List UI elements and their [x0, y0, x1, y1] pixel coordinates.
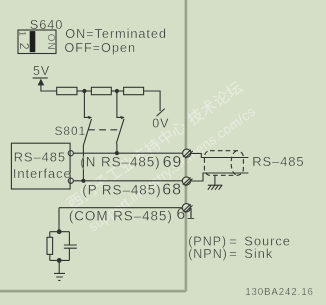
wire terminal 69 to cable [191, 153, 249, 157]
resistor R1 [57, 87, 77, 94]
shield earth bar [208, 184, 223, 186]
wire to earth [58, 260, 60, 273]
capacitor C (right branch) [68, 232, 70, 261]
drive enclosure boundary line (bottom grey) [0, 290, 186, 293]
RC top node dot [57, 229, 62, 234]
wire 5V down and to R1 [41, 85, 57, 91]
svg-text:ON: ON [45, 34, 56, 51]
resistor R2 [91, 87, 111, 94]
wire R2-R3 [111, 90, 123, 92]
RC loop top [50, 231, 70, 233]
switch S801 pole 1 arrowhead [88, 116, 92, 119]
svg-text:ON=Terminated: ON=Terminated [65, 26, 167, 41]
shield earth hatches [208, 185, 222, 190]
earth ground symbol [54, 273, 65, 280]
wire R1-R2 [77, 90, 91, 92]
terminal 69 screw [183, 149, 193, 158]
wire terminal 68 to cable [191, 173, 249, 181]
watermark [64, 78, 258, 234]
0V switch contact [157, 109, 165, 117]
svg-text:(N RS–485): (N RS–485) [80, 155, 160, 170]
switch S801 pole 1 blade [83, 119, 91, 146]
svg-text:Sink: Sink [244, 246, 273, 261]
svg-text:RS–485: RS–485 [14, 150, 66, 165]
svg-text:69: 69 [163, 154, 183, 171]
interface terminal P (open circle) [68, 178, 73, 183]
resistor R (left branch) [49, 232, 51, 261]
svg-text:5V: 5V [33, 64, 50, 78]
resistor R3 [124, 87, 144, 94]
DIP switch slider bar [30, 31, 36, 52]
junction dot A [82, 89, 86, 93]
junction N / switch2 [115, 151, 119, 155]
svg-text:2: 2 [17, 43, 31, 51]
RS-485 interface box [11, 143, 70, 189]
terminal 68 screw [182, 177, 192, 186]
cable shield stub [214, 175, 216, 185]
junction dot B [115, 89, 119, 93]
svg-text:(NPN): (NPN) [188, 247, 227, 261]
5V bar [33, 77, 48, 79]
wire R3 to 0V switch [144, 91, 161, 111]
svg-text:68: 68 [162, 182, 182, 199]
switch S801 pole 1 lower wire [82, 146, 84, 181]
svg-text:0V: 0V [152, 117, 169, 131]
drive enclosure boundary line (vertical grey bus) [184, 0, 187, 291]
5V arrow [38, 79, 45, 86]
wire COM down to RC [58, 208, 60, 232]
svg-text:=: = [229, 246, 238, 261]
svg-text:S801: S801 [55, 124, 87, 138]
switch S801 pole 2 blade [116, 119, 124, 144]
svg-text:(P RS–485): (P RS–485) [82, 182, 161, 197]
junction P / switch1 [81, 179, 85, 183]
svg-text:OFF=Open: OFF=Open [64, 40, 136, 55]
switch S801 pole 1 upper wire [84, 91, 91, 117]
RC loop bottom [50, 259, 70, 261]
S801 coupling dashed link [88, 129, 119, 131]
interface terminal N (open circle) [68, 151, 73, 156]
switch S801 pole 2 upper wire [117, 91, 124, 117]
switch S801 pole 2 lower wire [116, 144, 118, 154]
svg-text:RS–485: RS–485 [252, 154, 304, 169]
svg-text:1: 1 [17, 31, 28, 37]
svg-text:Interface: Interface [13, 166, 72, 181]
svg-text:130BA242.16: 130BA242.16 [245, 287, 314, 298]
cable tube dashed outline [204, 151, 243, 176]
RC bottom node dot [57, 258, 62, 263]
wire N line [73, 152, 182, 154]
wire P line [73, 180, 182, 182]
svg-text:(COM RS–485): (COM RS–485) [69, 209, 173, 224]
terminal 61 screw [182, 204, 192, 213]
DIP switch S640 body [18, 30, 56, 54]
wire COM line [59, 207, 182, 209]
cable tube right end cap arc [231, 151, 236, 175]
switch S801 pole 2 arrowhead [120, 116, 124, 119]
